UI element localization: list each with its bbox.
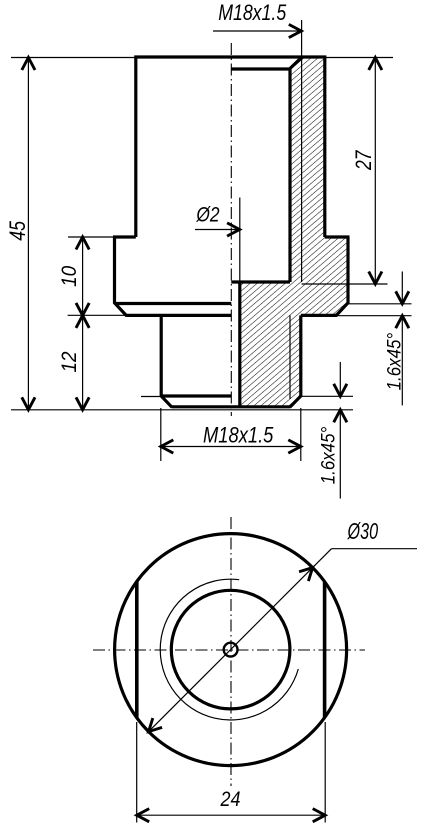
- flange top step left: [113, 235, 136, 238]
- arrow 24 left: [137, 809, 150, 822]
- dimension line 45: [27, 58, 29, 410]
- svg-text:24: 24: [220, 788, 241, 811]
- arrow 27 bottom: [369, 272, 382, 285]
- lower stem left edge: [160, 315, 163, 396]
- extension line top right (27): [326, 57, 394, 59]
- extension line stem chamfer right (1.6x45): [301, 395, 353, 397]
- upper body left edge: [134, 57, 137, 237]
- leader line M18x1.5 top: [213, 30, 300, 32]
- svg-text:1.6x45°: 1.6x45°: [384, 333, 406, 391]
- extension line 24 right: [324, 722, 326, 823]
- arrow 27 top: [369, 58, 382, 71]
- svg-text:45: 45: [5, 220, 30, 240]
- stem chamfer circle edge: [162, 394, 232, 397]
- arrow Ø30 upper: [299, 568, 313, 582]
- arrow 45 top: [22, 58, 35, 71]
- outer circle Ø30 flange: [115, 534, 347, 766]
- arrow 1.6x45 stem up: [334, 410, 347, 423]
- svg-text:1.6x45°: 1.6x45°: [318, 427, 340, 485]
- dimension line 1.6x45 stem upper part: [339, 362, 341, 396]
- flange top step right: [325, 235, 350, 238]
- flange chamfer left diagonal: [114, 302, 127, 316]
- arrow 12 bottom: [76, 397, 89, 410]
- extension line step (10): [68, 236, 114, 238]
- svg-text:10: 10: [58, 266, 81, 287]
- arrow 24 right: [313, 809, 326, 822]
- thread minor line M18x1.5 bottom (thin): [289, 315, 291, 399]
- top face edge: [134, 55, 326, 58]
- arrow 12 top: [76, 315, 89, 328]
- arrow Ø30 lower: [149, 718, 163, 732]
- arrow Ø2: [227, 223, 240, 236]
- bore bottom edge: [231, 280, 290, 283]
- thread major circle (thin, 3/4 arc): [160, 579, 298, 720]
- extension line M18 bottom left: [160, 408, 162, 461]
- extension line bottom face (45/12/chamfer): [11, 409, 353, 411]
- thread major line M18x1.5 top (thin): [301, 20, 303, 282]
- flange bottom face right (section): [301, 314, 337, 317]
- dimension line M18x1.5 bottom: [161, 446, 301, 448]
- centerline: section view vertical axis: [230, 43, 232, 416]
- hatch: section hatching of cut material: [240, 58, 348, 407]
- dimension line 10 and 12: [82, 237, 84, 410]
- flange right edge: [346, 237, 349, 303]
- Ø2 hole circle: [224, 643, 238, 657]
- centerline bottom view horizontal: [93, 649, 365, 651]
- leader line Ø2: [195, 229, 239, 231]
- svg-text:M18x1.5: M18x1.5: [203, 423, 274, 448]
- extension line flange chamfer top (1.6x45): [348, 303, 412, 305]
- centerline bottom view vertical: [230, 517, 232, 786]
- dimension line 24: [137, 814, 326, 816]
- stem chamfer left diagonal: [161, 396, 172, 408]
- arrow M18 bottom left: [161, 440, 174, 453]
- leader underline Ø30: [332, 548, 418, 550]
- svg-text:Ø2: Ø2: [196, 204, 220, 227]
- flange chamfer right diagonal: [336, 302, 349, 316]
- dimension line Ø30 diagonal: [149, 549, 332, 732]
- arrow 1.6x45 flange up: [396, 316, 409, 329]
- bottom face edge: [172, 405, 291, 408]
- flange chamfer circle edge: [116, 302, 232, 305]
- bore circle (thread minor): [171, 590, 290, 709]
- arrow 10 bottom: [76, 303, 89, 316]
- dimension line 1.6x45 stem lower part: [339, 410, 341, 499]
- bore wall (thread minor, section): [288, 69, 291, 283]
- flange bottom face left of axis: [126, 314, 231, 317]
- thread relief inner edge: [231, 67, 290, 70]
- extension line top left (45): [11, 57, 134, 59]
- extension line 24 left: [136, 722, 138, 823]
- stem chamfer right diagonal (section): [290, 396, 302, 408]
- hole edge extension line for Ø2: [239, 198, 241, 282]
- extension line bore bottom (27): [302, 283, 388, 285]
- svg-text:27: 27: [351, 150, 376, 171]
- extension line flange chamfer bottom (1.6x45): [336, 315, 411, 317]
- dimension line 1.6x45 flange upper part: [401, 272, 403, 304]
- upper body right edge: [323, 57, 326, 237]
- svg-text:Ø30: Ø30: [347, 518, 378, 544]
- svg-text:M18x1.5: M18x1.5: [218, 0, 287, 25]
- dimension line 1.6x45 flange lower part: [401, 316, 403, 406]
- arrow 1.6x45 stem down: [334, 384, 347, 397]
- extension line M18 bottom right: [300, 408, 302, 461]
- extension line flange bottom (10/12): [68, 314, 126, 316]
- extension line stem chamfer left: [141, 396, 161, 398]
- flange left edge: [113, 237, 116, 303]
- svg-text:12: 12: [58, 351, 81, 372]
- arrow 45 bottom: [22, 397, 35, 410]
- arrow M18 bottom right: [288, 440, 301, 453]
- lower stem right edge: [299, 315, 302, 396]
- bore entrance chamfer diagonal: [290, 57, 302, 69]
- arrow M18x1.5 top: [289, 24, 302, 37]
- Ø2 hole wall (section): [238, 281, 241, 407]
- dimension line 27: [374, 58, 376, 285]
- arrow 1.6x45 flange down: [396, 291, 409, 304]
- arrow 10 top: [76, 237, 89, 250]
- right flat chord: [323, 582, 327, 718]
- left flat chord: [135, 581, 139, 718]
